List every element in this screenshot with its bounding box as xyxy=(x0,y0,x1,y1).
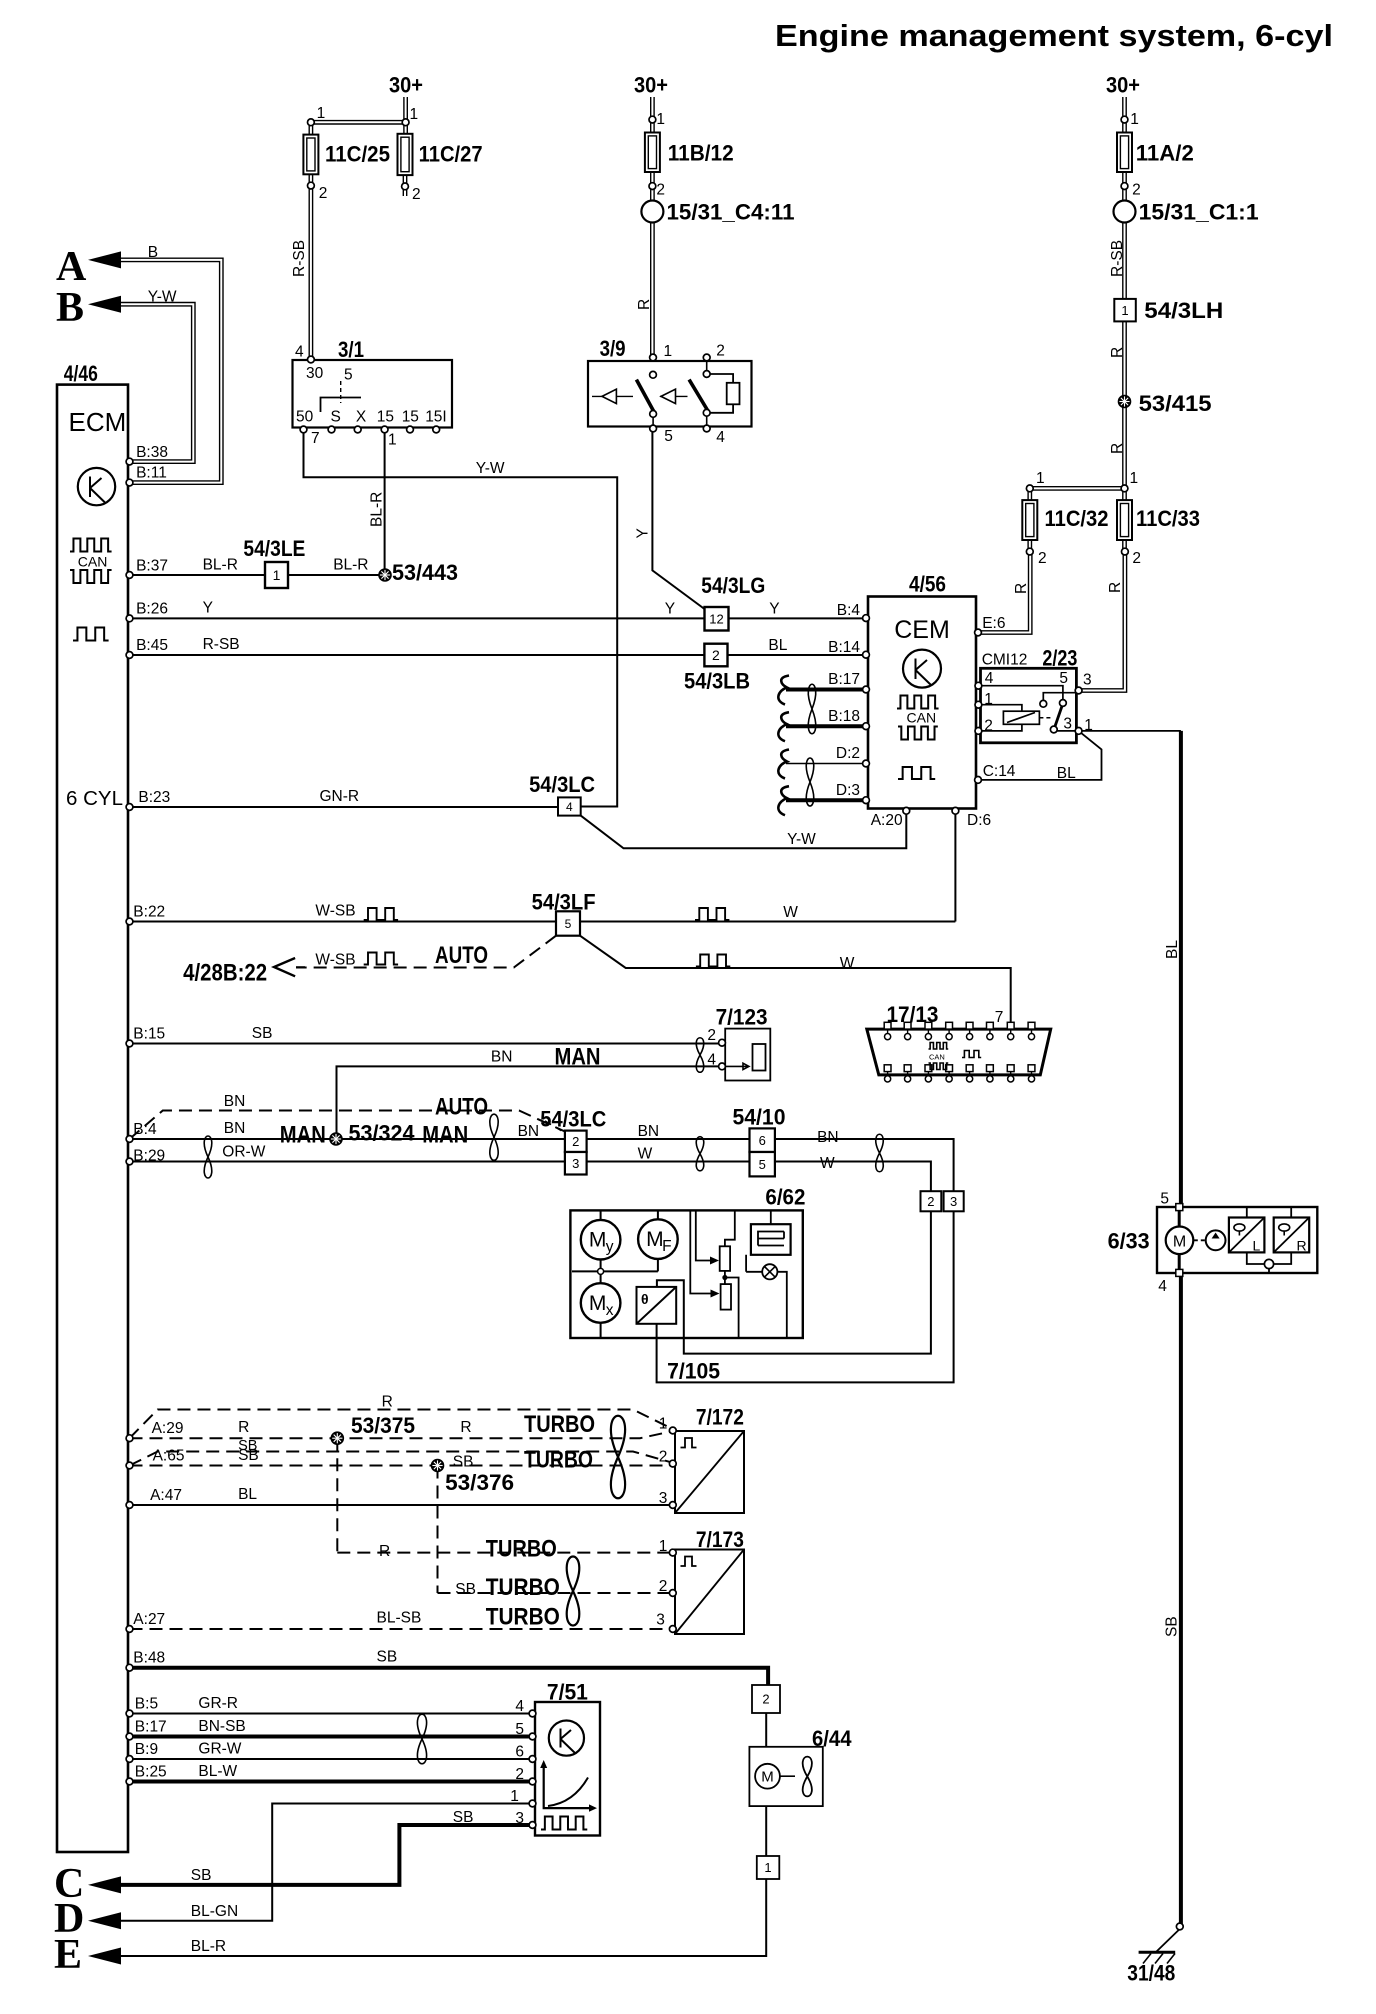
svg-text:2: 2 xyxy=(1038,550,1047,567)
svg-text:2: 2 xyxy=(716,343,725,360)
svg-text:R: R xyxy=(382,1394,393,1411)
svg-text:R: R xyxy=(1013,583,1030,594)
svg-text:30+: 30+ xyxy=(1106,73,1140,98)
svg-text:B:29: B:29 xyxy=(133,1148,165,1165)
svg-text:B: B xyxy=(148,244,158,261)
svg-text:BN: BN xyxy=(638,1123,660,1140)
svg-text:y: y xyxy=(606,1239,614,1256)
svg-text:1: 1 xyxy=(410,106,419,123)
svg-text:A:65: A:65 xyxy=(153,1448,185,1465)
svg-text:B: B xyxy=(56,285,84,331)
svg-text:53/415: 53/415 xyxy=(1139,391,1212,416)
svg-text:2: 2 xyxy=(659,1449,668,1466)
svg-text:4/46: 4/46 xyxy=(64,361,98,386)
svg-text:Y: Y xyxy=(203,600,213,617)
svg-text:SB: SB xyxy=(453,1454,474,1471)
svg-text:4: 4 xyxy=(515,1698,524,1715)
svg-text:BL: BL xyxy=(1164,940,1181,959)
svg-text:E: E xyxy=(54,1932,82,1978)
svg-text:BL: BL xyxy=(238,1486,257,1503)
svg-text:BL-W: BL-W xyxy=(198,1763,237,1780)
svg-text:R-SB: R-SB xyxy=(291,240,308,277)
svg-text:54/3LG: 54/3LG xyxy=(701,573,765,598)
svg-text:W: W xyxy=(783,904,798,921)
svg-text:2/23: 2/23 xyxy=(1042,646,1077,671)
svg-text:W-SB: W-SB xyxy=(315,903,355,920)
svg-text:11C/27: 11C/27 xyxy=(419,142,483,167)
svg-text:7/173: 7/173 xyxy=(696,1527,744,1552)
svg-text:6: 6 xyxy=(759,1133,766,1148)
svg-text:B:4: B:4 xyxy=(837,602,861,619)
svg-text:A:47: A:47 xyxy=(150,1487,182,1504)
svg-text:3: 3 xyxy=(515,1810,524,1827)
svg-text:BN: BN xyxy=(817,1129,839,1146)
svg-text:CAN: CAN xyxy=(78,554,108,570)
svg-text:A:29: A:29 xyxy=(152,1420,184,1437)
svg-text:TURBO: TURBO xyxy=(486,1604,560,1631)
svg-text:A: A xyxy=(56,244,87,290)
svg-text:5: 5 xyxy=(515,1721,524,1738)
svg-text:54/3LF: 54/3LF xyxy=(532,890,596,915)
svg-text:BL-GN: BL-GN xyxy=(191,1903,238,1920)
svg-text:7: 7 xyxy=(995,1009,1004,1026)
svg-text:x: x xyxy=(606,1302,614,1319)
svg-text:3/1: 3/1 xyxy=(338,337,364,362)
svg-text:B:14: B:14 xyxy=(828,639,860,656)
svg-text:M: M xyxy=(589,1229,607,1252)
svg-text:SB: SB xyxy=(238,1438,257,1454)
svg-text:W: W xyxy=(840,955,855,972)
svg-text:Y-W: Y-W xyxy=(787,831,816,848)
svg-text:BL-SB: BL-SB xyxy=(377,1610,422,1627)
svg-text:TURBO: TURBO xyxy=(486,1574,560,1601)
svg-text:2: 2 xyxy=(1132,182,1141,199)
svg-text:1: 1 xyxy=(659,1538,668,1555)
svg-text:F: F xyxy=(662,1238,671,1255)
svg-text:R: R xyxy=(460,1419,471,1436)
svg-text:R: R xyxy=(1109,443,1126,454)
svg-text:53/443: 53/443 xyxy=(392,560,458,585)
svg-text:W: W xyxy=(820,1155,835,1172)
svg-text:BL-R: BL-R xyxy=(333,557,368,574)
svg-text:6: 6 xyxy=(515,1744,524,1761)
svg-text:7/123: 7/123 xyxy=(716,1005,768,1030)
svg-text:5: 5 xyxy=(1160,1191,1169,1208)
svg-text:1: 1 xyxy=(764,1860,771,1875)
svg-text:6/44: 6/44 xyxy=(812,1726,852,1751)
svg-text:17/13: 17/13 xyxy=(887,1002,939,1027)
svg-text:S: S xyxy=(331,409,341,426)
svg-text:ECM: ECM xyxy=(69,407,127,437)
svg-text:R: R xyxy=(238,1419,249,1436)
svg-text:BL-R: BL-R xyxy=(191,1938,226,1955)
svg-text:2: 2 xyxy=(984,718,993,735)
svg-text:BN: BN xyxy=(518,1123,540,1140)
svg-text:SB: SB xyxy=(453,1809,474,1826)
svg-text:4: 4 xyxy=(707,1052,716,1069)
svg-text:M: M xyxy=(646,1228,664,1251)
svg-text:7: 7 xyxy=(311,430,320,447)
svg-text:4: 4 xyxy=(1158,1278,1167,1295)
svg-text:54/3LC: 54/3LC xyxy=(540,1107,606,1132)
svg-text:1: 1 xyxy=(388,432,397,449)
svg-text:53/324: 53/324 xyxy=(349,1121,416,1146)
svg-text:12: 12 xyxy=(709,611,723,626)
svg-text:BL: BL xyxy=(768,637,787,654)
svg-text:7/51: 7/51 xyxy=(547,1680,588,1705)
svg-text:Y-W: Y-W xyxy=(148,289,177,306)
svg-text:R: R xyxy=(1109,347,1126,358)
svg-text:B:17: B:17 xyxy=(135,1719,167,1736)
svg-text:15/31_C4:11: 15/31_C4:11 xyxy=(667,200,795,225)
svg-text:1: 1 xyxy=(1130,111,1139,128)
svg-text:5: 5 xyxy=(664,428,673,445)
svg-text:TURBO: TURBO xyxy=(524,1447,593,1474)
svg-text:BN: BN xyxy=(224,1093,246,1110)
svg-text:E:6: E:6 xyxy=(982,615,1005,632)
svg-text:B:18: B:18 xyxy=(828,708,860,725)
svg-text:2: 2 xyxy=(656,182,665,199)
svg-text:B:17: B:17 xyxy=(828,671,860,688)
svg-text:θ: θ xyxy=(641,1291,649,1307)
svg-text:54/3LH: 54/3LH xyxy=(1144,298,1223,323)
svg-text:D:3: D:3 xyxy=(836,782,860,799)
svg-text:1: 1 xyxy=(510,1788,519,1805)
svg-text:Y: Y xyxy=(769,601,779,618)
svg-text:2: 2 xyxy=(762,1692,769,1707)
svg-text:CMI12: CMI12 xyxy=(982,652,1028,669)
svg-text:1: 1 xyxy=(1084,717,1093,734)
svg-text:Y: Y xyxy=(665,601,675,618)
svg-text:X: X xyxy=(356,409,367,426)
svg-text:W: W xyxy=(638,1146,653,1163)
svg-text:3: 3 xyxy=(572,1156,579,1171)
svg-text:11A/2: 11A/2 xyxy=(1136,141,1194,166)
svg-text:1: 1 xyxy=(659,1416,668,1433)
svg-text:1: 1 xyxy=(1121,303,1128,318)
svg-text:B:23: B:23 xyxy=(138,789,170,806)
svg-text:3: 3 xyxy=(656,1612,665,1629)
svg-text:SB: SB xyxy=(1164,1616,1181,1637)
svg-text:15: 15 xyxy=(402,409,419,426)
svg-text:2: 2 xyxy=(707,1027,716,1044)
svg-text:TURBO: TURBO xyxy=(486,1536,557,1563)
svg-text:11C/33: 11C/33 xyxy=(1136,506,1200,531)
svg-text:L: L xyxy=(1253,1238,1261,1254)
svg-text:B:15: B:15 xyxy=(133,1026,165,1043)
svg-text:30: 30 xyxy=(306,365,324,382)
svg-text:15: 15 xyxy=(377,409,394,426)
svg-text:50: 50 xyxy=(296,409,314,426)
svg-text:54/3LC: 54/3LC xyxy=(529,772,595,797)
svg-text:B:4: B:4 xyxy=(133,1121,157,1138)
svg-text:BL-R: BL-R xyxy=(203,557,238,574)
svg-text:31/48: 31/48 xyxy=(1127,1961,1175,1986)
svg-text:C:14: C:14 xyxy=(983,763,1016,780)
svg-text:B:38: B:38 xyxy=(136,444,168,461)
svg-text:CAN: CAN xyxy=(907,710,937,726)
svg-text:D:2: D:2 xyxy=(836,745,860,762)
svg-text:3/9: 3/9 xyxy=(600,336,626,361)
svg-text:SB: SB xyxy=(252,1025,273,1042)
svg-text:11C/25: 11C/25 xyxy=(325,142,390,167)
svg-text:4/56: 4/56 xyxy=(909,572,946,597)
svg-text:11C/32: 11C/32 xyxy=(1045,506,1109,531)
svg-text:M: M xyxy=(761,1769,774,1786)
svg-text:30+: 30+ xyxy=(634,73,668,98)
svg-text:15/31_C1:1: 15/31_C1:1 xyxy=(1139,200,1259,225)
svg-text:6/33: 6/33 xyxy=(1108,1229,1150,1254)
svg-text:R-SB: R-SB xyxy=(1109,240,1126,277)
svg-text:R: R xyxy=(379,1543,390,1560)
svg-text:5: 5 xyxy=(565,917,572,931)
svg-text:MAN: MAN xyxy=(280,1122,326,1149)
svg-text:5: 5 xyxy=(759,1157,766,1172)
svg-text:1: 1 xyxy=(664,343,673,360)
svg-text:MAN: MAN xyxy=(555,1044,601,1071)
svg-text:B:26: B:26 xyxy=(136,601,168,618)
svg-text:B:11: B:11 xyxy=(136,465,167,482)
svg-text:R: R xyxy=(1107,582,1124,593)
svg-text:2: 2 xyxy=(1132,550,1141,567)
svg-text:54/10: 54/10 xyxy=(733,1105,786,1130)
svg-text:2: 2 xyxy=(659,1578,668,1595)
svg-text:4/28B:22: 4/28B:22 xyxy=(183,960,267,987)
svg-text:A:27: A:27 xyxy=(133,1611,165,1628)
svg-text:1: 1 xyxy=(317,105,326,122)
svg-text:2: 2 xyxy=(515,1766,524,1783)
svg-text:2: 2 xyxy=(572,1134,579,1149)
svg-text:BN: BN xyxy=(224,1120,246,1137)
svg-text:W-SB: W-SB xyxy=(315,952,355,969)
svg-text:CAN: CAN xyxy=(929,1053,945,1062)
svg-text:3: 3 xyxy=(1083,672,1092,689)
svg-text:5: 5 xyxy=(1059,670,1068,687)
svg-text:2: 2 xyxy=(412,186,421,203)
svg-text:7/172: 7/172 xyxy=(696,1405,744,1430)
svg-text:1: 1 xyxy=(273,567,281,583)
svg-text:GR-W: GR-W xyxy=(198,1741,241,1758)
svg-text:M: M xyxy=(1173,1233,1186,1250)
svg-text:B:37: B:37 xyxy=(136,558,168,575)
svg-text:Y: Y xyxy=(635,528,652,538)
svg-text:15I: 15I xyxy=(425,409,447,426)
svg-text:R: R xyxy=(636,299,653,310)
svg-text:SB: SB xyxy=(377,1649,398,1666)
svg-text:2: 2 xyxy=(319,185,328,202)
svg-text:R-SB: R-SB xyxy=(203,636,240,653)
svg-text:BL: BL xyxy=(1057,765,1076,782)
svg-text:6 CYL: 6 CYL xyxy=(66,787,123,810)
svg-text:GR-R: GR-R xyxy=(198,1695,238,1712)
svg-text:D:6: D:6 xyxy=(967,812,991,829)
svg-text:54/3LB: 54/3LB xyxy=(684,669,750,694)
svg-text:2: 2 xyxy=(712,647,720,663)
svg-text:4: 4 xyxy=(566,800,573,814)
svg-text:1: 1 xyxy=(984,691,993,708)
svg-text:7/105: 7/105 xyxy=(667,1359,720,1384)
svg-text:6/62: 6/62 xyxy=(765,1185,805,1210)
svg-text:B:22: B:22 xyxy=(133,904,165,921)
svg-text:3: 3 xyxy=(659,1490,668,1507)
svg-text:30+: 30+ xyxy=(389,73,423,98)
svg-text:AUTO: AUTO xyxy=(435,942,488,969)
svg-text:Engine management system, 6-cy: Engine management system, 6-cyl xyxy=(775,18,1333,53)
svg-text:1: 1 xyxy=(1130,470,1139,487)
svg-text:MAN: MAN xyxy=(422,1122,468,1149)
svg-text:CEM: CEM xyxy=(894,616,950,644)
svg-text:2: 2 xyxy=(927,1194,934,1209)
svg-text:4: 4 xyxy=(295,344,304,361)
svg-text:BN: BN xyxy=(491,1049,513,1066)
svg-text:SB: SB xyxy=(191,1867,212,1884)
svg-text:54/3LE: 54/3LE xyxy=(243,536,305,561)
svg-text:B:45: B:45 xyxy=(136,637,168,654)
svg-text:M: M xyxy=(589,1292,607,1315)
svg-text:B:5: B:5 xyxy=(135,1696,158,1713)
svg-text:R: R xyxy=(1297,1238,1307,1254)
svg-text:1: 1 xyxy=(656,111,665,128)
svg-text:GN-R: GN-R xyxy=(320,788,360,805)
svg-text:3: 3 xyxy=(1063,716,1072,733)
svg-text:SB: SB xyxy=(455,1581,476,1598)
svg-text:B:9: B:9 xyxy=(135,1741,158,1758)
svg-text:OR-W: OR-W xyxy=(222,1144,265,1161)
svg-text:B:25: B:25 xyxy=(135,1764,167,1781)
svg-text:1: 1 xyxy=(1036,470,1045,487)
svg-text:11B/12: 11B/12 xyxy=(668,141,734,166)
svg-text:AUTO: AUTO xyxy=(435,1094,488,1121)
svg-text:BN-SB: BN-SB xyxy=(198,1718,245,1735)
svg-text:3: 3 xyxy=(950,1194,957,1209)
svg-text:Y-W: Y-W xyxy=(476,460,505,477)
svg-text:53/376: 53/376 xyxy=(445,1470,514,1495)
svg-text:B:48: B:48 xyxy=(133,1650,165,1667)
svg-text:BL-R: BL-R xyxy=(369,492,386,527)
svg-text:53/375: 53/375 xyxy=(351,1413,415,1438)
svg-text:5: 5 xyxy=(344,367,353,384)
svg-text:4: 4 xyxy=(716,429,725,446)
svg-text:A:20: A:20 xyxy=(871,812,903,829)
svg-text:TURBO: TURBO xyxy=(524,1411,595,1438)
svg-text:4: 4 xyxy=(985,670,994,687)
